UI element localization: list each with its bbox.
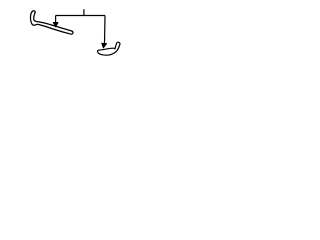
curved strip with curled left end (left object) (30, 11, 73, 34)
leader tick (83, 9, 85, 15)
right arrow shaft (104, 16, 107, 44)
left arrow shaft (55, 16, 57, 24)
background (0, 0, 150, 66)
leader horizontal line (56, 15, 105, 17)
left arrowhead (53, 22, 58, 27)
right arrowhead (102, 43, 107, 48)
small hook-shaped strip with upturned right end (right object) (98, 42, 120, 55)
